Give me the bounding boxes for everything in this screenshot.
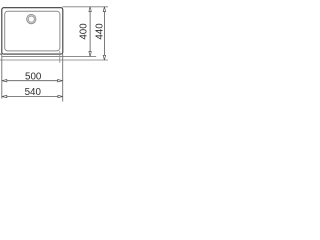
arrow bottom 440 (103, 55, 105, 60)
arrow left 540 (2, 95, 7, 97)
svg-text:500: 500 (25, 71, 42, 82)
right extension line (62, 54, 64, 102)
dimension line 440 (103, 7, 105, 60)
svg-text:400: 400 (79, 23, 90, 40)
sink outer rim rect (2, 8, 63, 54)
arrow bottom 400 (89, 52, 91, 57)
svg-text:540: 540 (25, 87, 42, 98)
arrow right 540 (58, 95, 63, 97)
arrow top 440 (103, 7, 105, 12)
svg-text:440: 440 (95, 23, 106, 40)
dimension line 500 (2, 80, 63, 82)
bottom extension line B (440) (0, 59, 108, 61)
background (0, 0, 108, 108)
dimension line 400 (89, 7, 91, 57)
inner-right short extension line (59, 51, 61, 63)
dimension line 540 (2, 96, 63, 98)
arrow right 500 (58, 80, 63, 82)
left extension line (1, 54, 3, 99)
tap hole ring (27, 15, 35, 23)
arrow top 400 (89, 7, 91, 12)
bottom extension line A (400) (2, 55, 96, 57)
sink bowl inner rect (5, 11, 60, 51)
arrow left 500 (2, 80, 7, 82)
top extension line (62, 6, 108, 8)
bottom-left edge stub (0, 53, 2, 55)
